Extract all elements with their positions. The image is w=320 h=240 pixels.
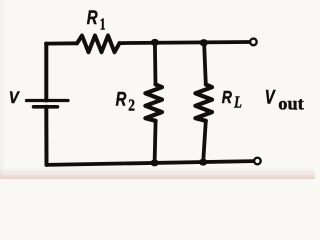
svg-text:2: 2: [128, 96, 135, 115]
terminal top right (open circle): [250, 39, 257, 46]
wire top: R1 to right terminal: [120, 42, 250, 43]
resistor R2: [145, 84, 162, 120]
wire RL branch bottom: [203, 121, 206, 162]
svg-text:1: 1: [100, 16, 106, 35]
svg-text:V: V: [265, 87, 276, 108]
wire top: left corner to R1: [46, 41, 77, 45]
terminal bottom right (open circle): [254, 158, 261, 165]
battery V: short plate: [34, 105, 58, 109]
svg-text:L: L: [233, 94, 242, 112]
node: top junction RL: [200, 39, 208, 46]
wire left vertical lower: [44, 107, 48, 165]
node: bottom junction RL: [199, 159, 207, 166]
node: bottom junction R2: [151, 159, 159, 166]
svg-text:R: R: [87, 6, 98, 28]
battery V: long plate: [27, 99, 69, 102]
node: top junction R2: [151, 39, 159, 46]
wire RL branch top: [204, 43, 206, 85]
svg-text:R: R: [222, 89, 233, 108]
svg-text:out: out: [278, 94, 303, 114]
wire left vertical upper: [44, 44, 48, 101]
wire R2 branch top: [153, 43, 157, 85]
svg-text:V: V: [9, 89, 20, 107]
wire R2 branch bottom: [155, 121, 156, 163]
resistor RL: [195, 84, 212, 120]
resistor R1: [77, 36, 120, 53]
svg-text:R: R: [116, 89, 127, 110]
wire bottom: [47, 161, 254, 165]
